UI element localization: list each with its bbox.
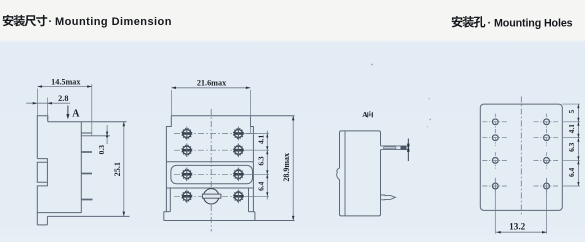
dimension 28.9max: [282, 116, 294, 221]
mounting hole right row 4: [544, 183, 550, 189]
mounting hole left row 2: [492, 135, 498, 141]
front view: right screw 4: [237, 190, 239, 204]
front view: vertical centerline: [210, 109, 212, 232]
svg-text:Mounting Holes: Mounting Holes: [494, 17, 573, 29]
view A: body outline: [337, 131, 381, 216]
dimension chain 4.1 / 6.3 / 6.4: [244, 131, 269, 200]
left view: pin 3: [81, 173, 92, 175]
svg-text:2.8: 2.8: [58, 94, 68, 103]
svg-text:5: 5: [567, 109, 576, 113]
svg-text:Mounting Dimension: Mounting Dimension: [55, 16, 172, 28]
left view: pin 4: [81, 199, 92, 201]
svg-text:6.4: 6.4: [567, 167, 576, 177]
mounting hole left row 4: [492, 183, 498, 189]
svg-text:·: ·: [49, 16, 53, 28]
dimension 2.8: [26, 94, 70, 121]
scan speck: [428, 98, 429, 99]
front view: left screw 2: [186, 143, 188, 157]
mounting hole right row 3: [544, 158, 550, 164]
svg-text:25.1: 25.1: [113, 162, 122, 176]
dimension 13.2: [496, 222, 546, 234]
holes panel outline: [480, 104, 562, 210]
front view: left screw 1: [186, 127, 188, 141]
svg-text:21.6max: 21.6max: [197, 78, 227, 87]
scan speck: [427, 126, 428, 127]
svg-text:A: A: [72, 109, 80, 120]
svg-text:6.3: 6.3: [257, 156, 266, 166]
view A: side clip bump: [337, 168, 340, 179]
scan speck: [371, 64, 373, 66]
view A: pin thickness dimension: [407, 139, 410, 162]
svg-text:·: ·: [488, 17, 492, 29]
view A: solder pin: [381, 195, 396, 200]
left view: pin 2: [81, 151, 92, 153]
left view: side latch block: [37, 162, 47, 182]
svg-text:A: A: [362, 110, 368, 119]
view A: blade pin: [381, 146, 410, 150]
front view: left screw 3: [186, 168, 188, 182]
view arrow A: [66, 106, 80, 120]
dimension 25.1: [113, 122, 125, 217]
mounting hole left row 3: [492, 158, 498, 164]
holes panel centerline: [520, 97, 522, 216]
front view: marking plate (rounded rect): [171, 165, 253, 183]
front view: right screw 1: [237, 127, 239, 141]
svg-text:0.3: 0.3: [97, 145, 106, 155]
dimension 0.3: [97, 125, 108, 154]
mounting hole right row 2: [544, 135, 550, 141]
header left: 安装尺寸 Mounting Dimension: [3, 15, 172, 28]
mounting hole right row 1: [544, 119, 550, 125]
scan speck: [429, 119, 431, 121]
svg-text:4.1: 4.1: [567, 124, 576, 134]
dimension chain 5 / 4.1 / 6.3 / 6.4: [562, 104, 580, 186]
hole column extension lines: [494, 179, 496, 234]
front view: right screw 3: [237, 168, 239, 182]
front view: center retaining screw: [202, 189, 221, 204]
svg-text:28.9max: 28.9max: [282, 153, 291, 182]
svg-text:14.5max: 14.5max: [51, 77, 81, 86]
svg-text:6.4: 6.4: [257, 181, 266, 191]
front view: row centerlines: [174, 133, 256, 135]
front view: body outline: [164, 116, 295, 221]
dimension 21.6max: [171, 78, 250, 133]
left view: body outline: [37, 116, 129, 225]
svg-text:13.2: 13.2: [509, 222, 525, 232]
mounting hole left row 1: [492, 119, 498, 125]
left view: pin 1 (0.3 thick blade): [81, 132, 92, 134]
dimension 14.5max: [38, 77, 92, 135]
header right: 安装孔 Mounting Holes: [452, 16, 573, 29]
front view: left screw 4: [186, 190, 188, 204]
svg-text:6.3: 6.3: [567, 142, 576, 152]
view A label: [362, 110, 373, 119]
svg-text:4.1: 4.1: [257, 134, 266, 144]
front view: right screw 2: [237, 143, 239, 157]
